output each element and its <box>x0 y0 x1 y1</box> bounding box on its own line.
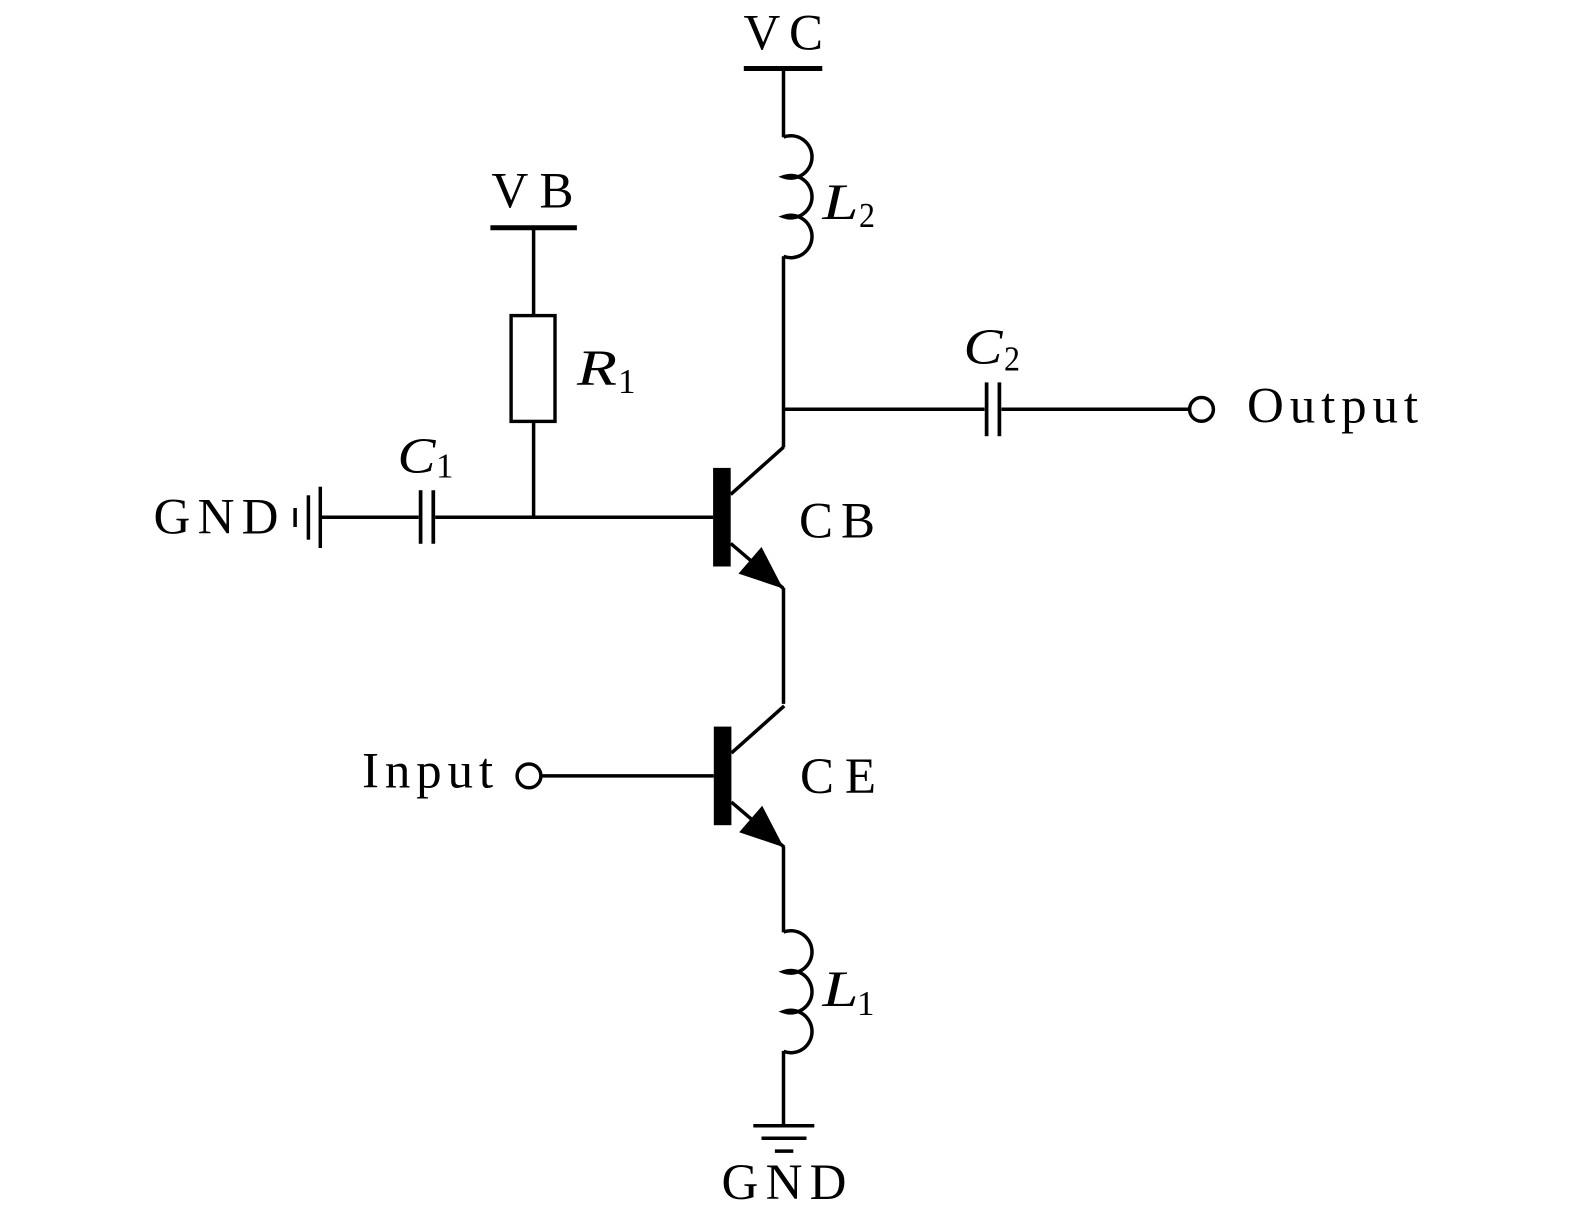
svg-text:L: L <box>821 175 858 231</box>
label L1 <box>821 962 874 1023</box>
svg-text:Output: Output <box>1247 379 1418 435</box>
wire ground to C1 <box>322 516 419 520</box>
svg-text:C: C <box>398 429 437 485</box>
svg-text:1: 1 <box>618 362 636 401</box>
wire CB emitter to CE collector <box>782 588 786 704</box>
svg-text:1: 1 <box>436 447 454 486</box>
resistor R1 <box>511 316 555 422</box>
inductor L2 <box>784 136 813 258</box>
svg-text:VC: VC <box>744 6 824 62</box>
label C2 <box>964 320 1021 379</box>
ground GND bottom <box>753 1126 814 1151</box>
wire output right segment <box>1002 407 1189 411</box>
svg-text:CB: CB <box>799 494 875 550</box>
svg-text:L: L <box>821 962 858 1018</box>
wire L1 to ground <box>782 1051 786 1126</box>
svg-text:CE: CE <box>800 749 876 805</box>
transistor CB <box>713 447 783 588</box>
wire L2 to collector node <box>782 256 786 447</box>
label L2 <box>821 175 875 235</box>
wire output left segment <box>784 407 985 411</box>
capacitor C2 <box>985 382 989 436</box>
svg-text:R: R <box>576 341 617 397</box>
power bar VB <box>490 225 577 230</box>
terminal Input <box>517 764 541 788</box>
wire R1 to base junction <box>532 421 536 519</box>
ground GND left <box>295 487 320 548</box>
svg-text:GND: GND <box>722 1155 847 1211</box>
terminal Output <box>1190 398 1214 422</box>
label C1 <box>398 429 454 486</box>
label R1 <box>576 341 636 401</box>
svg-text:Input: Input <box>362 744 493 800</box>
svg-text:GND: GND <box>154 490 279 546</box>
svg-text:C: C <box>964 320 1004 376</box>
wire VC to L2 <box>782 71 786 137</box>
capacitor C1 <box>419 490 423 544</box>
svg-text:1: 1 <box>857 984 875 1023</box>
svg-text:2: 2 <box>859 196 875 235</box>
svg-text:2: 2 <box>1004 340 1020 379</box>
inductor L1 <box>784 931 813 1053</box>
power bar VC <box>744 66 823 71</box>
transistor CE <box>714 706 784 847</box>
svg-text:VB: VB <box>492 164 574 220</box>
wire base CB <box>435 516 713 520</box>
wire CE emitter down <box>782 847 786 933</box>
wire VB to R1 <box>532 230 536 316</box>
wire input to CE base <box>543 774 714 778</box>
